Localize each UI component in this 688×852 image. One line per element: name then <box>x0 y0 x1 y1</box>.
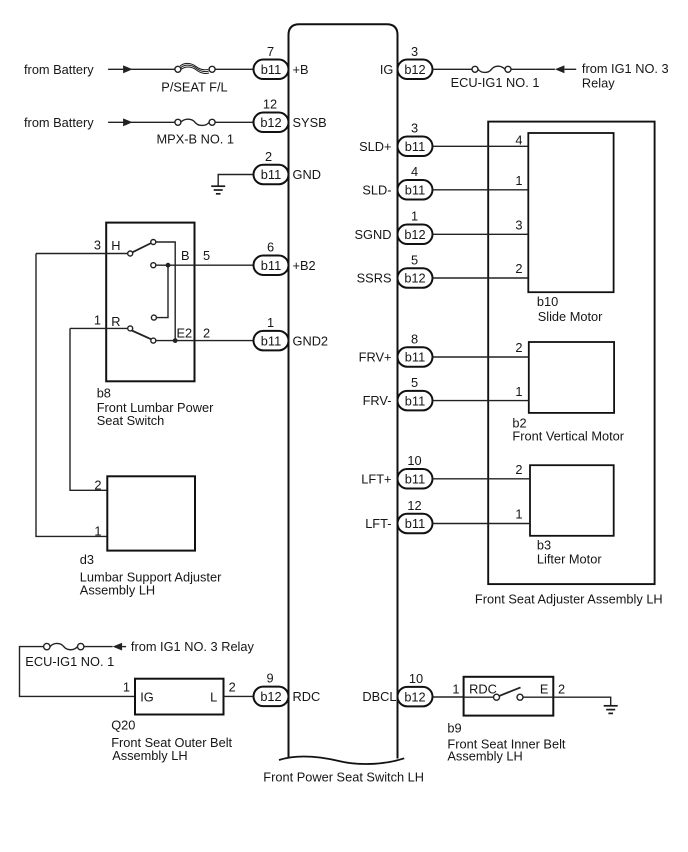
connector b12 pin SGND <box>398 225 433 245</box>
wire FRV- to vertical motor pin 1 <box>433 400 529 402</box>
svg-text:1: 1 <box>452 681 459 696</box>
motor b3 Lifter Motor box <box>530 465 614 536</box>
svg-text:from Battery: from Battery <box>24 62 94 77</box>
switch B contact <box>151 263 156 268</box>
svg-text:1: 1 <box>515 384 522 399</box>
svg-text:b3: b3 <box>537 537 551 552</box>
arrow left on IG1 feed <box>113 643 123 651</box>
switch R blade <box>132 331 152 340</box>
svg-text:5: 5 <box>203 248 210 263</box>
wire H throw to E2 net vertical <box>156 242 175 341</box>
switch H pole contact <box>128 251 133 256</box>
wire SLD+ to slide motor pin 4 <box>433 145 529 147</box>
svg-text:RDC: RDC <box>293 689 321 704</box>
label b9 Front Seat Inner Belt Assembly LH <box>447 720 566 763</box>
wire SSRS to slide motor pin 2 <box>433 277 529 279</box>
connector b12 pin SSRS <box>398 268 433 288</box>
svg-text:from IG1 NO. 3 Relay: from IG1 NO. 3 Relay <box>131 639 255 654</box>
label b8 Front Lumbar Power Seat Switch <box>97 385 214 428</box>
wire stub after arrow <box>564 68 576 70</box>
connector b11 pin SLD- <box>398 180 433 200</box>
wire Q20 to connector b12 RDC <box>224 695 254 697</box>
svg-text:b12: b12 <box>404 62 425 77</box>
connector b11 pin FRV+ <box>398 347 433 367</box>
connector b12 pin IG <box>398 60 433 80</box>
connector b11 pin GND2 <box>254 331 289 351</box>
svg-text:b11: b11 <box>405 516 425 531</box>
wire FRV+ to vertical motor pin 2 <box>433 356 529 358</box>
wire b9 pin1 to pole <box>464 696 494 698</box>
assembly box Front Seat Adjuster Assembly LH <box>488 122 654 584</box>
svg-text:5: 5 <box>411 252 418 267</box>
svg-text:+B2: +B2 <box>293 258 316 273</box>
svg-text:b12: b12 <box>260 115 281 130</box>
svg-text:2: 2 <box>515 340 522 355</box>
wire from Battery to fuse MPX-B <box>108 121 175 123</box>
wire LFT+ to lifter motor pin 2 <box>433 478 531 480</box>
svg-text:ECU-IG1 NO. 1: ECU-IG1 NO. 1 <box>451 75 540 90</box>
wire fuse to arrow <box>511 68 555 70</box>
svg-text:d3: d3 <box>80 552 94 567</box>
svg-text:FRV+: FRV+ <box>359 350 392 365</box>
svg-text:b12: b12 <box>404 271 425 286</box>
switch R throw contact <box>151 338 156 343</box>
connector b11 pin GND <box>254 165 289 185</box>
wire R row from external to switch <box>70 327 128 329</box>
switch b9 pole contact <box>494 694 500 700</box>
switch b9 throw contact <box>517 694 523 700</box>
svg-text:FRV-: FRV- <box>363 393 392 408</box>
wire connector IG to fuse ECU-IG1 <box>433 68 473 70</box>
wire fusible link to connector b11 +B <box>215 68 254 70</box>
svg-text:Seat Switch: Seat Switch <box>97 413 165 428</box>
wire b8 pin1 to d3 pin2 <box>70 328 107 490</box>
wire SLD- to slide motor pin 1 <box>433 189 529 191</box>
svg-text:SLD+: SLD+ <box>359 139 391 154</box>
label d3 Lumbar Support Adjuster Assembly LH <box>80 552 222 598</box>
svg-text:SGND: SGND <box>355 227 392 242</box>
connector b12 pin RDC <box>254 687 289 707</box>
svg-text:RDC: RDC <box>469 682 497 697</box>
svg-text:10: 10 <box>407 453 421 468</box>
svg-text:Q20: Q20 <box>111 718 135 733</box>
label b2 Front Vertical Motor <box>512 415 624 443</box>
svg-text:LFT-: LFT- <box>365 516 391 531</box>
wire E2 to b11 GND2 <box>156 340 254 342</box>
label b3 Lifter Motor <box>537 537 602 566</box>
svg-text:2: 2 <box>203 325 210 340</box>
svg-text:Lifter Motor: Lifter Motor <box>537 552 602 567</box>
connector b11 pin LFT- <box>398 514 433 534</box>
svg-text:LFT+: LFT+ <box>361 471 391 486</box>
svg-text:H: H <box>111 238 120 253</box>
wire throw to E terminal <box>523 696 553 698</box>
svg-text:2: 2 <box>558 681 565 696</box>
svg-text:Front Seat Adjuster Assembly L: Front Seat Adjuster Assembly LH <box>475 591 663 606</box>
svg-text:5: 5 <box>411 375 418 390</box>
svg-text:SSRS: SSRS <box>357 271 392 286</box>
ground symbol GND <box>211 186 225 194</box>
svg-text:Relay: Relay <box>582 76 615 91</box>
svg-text:12: 12 <box>263 97 277 112</box>
svg-text:GND: GND <box>293 167 321 182</box>
svg-text:Assembly LH: Assembly LH <box>447 749 522 764</box>
svg-text:b11: b11 <box>405 393 425 408</box>
svg-text:b12: b12 <box>260 689 281 704</box>
svg-text:6: 6 <box>267 240 274 255</box>
ECU main box Front Power Seat Switch LH <box>279 24 404 764</box>
svg-text:10: 10 <box>409 671 423 686</box>
svg-text:b11: b11 <box>405 183 425 198</box>
svg-text:B: B <box>181 248 190 263</box>
wire fuse to connector b12 SYSB <box>215 121 254 123</box>
svg-text:from IG1 NO. 3: from IG1 NO. 3 <box>582 61 669 76</box>
svg-text:b12: b12 <box>404 227 425 242</box>
svg-text:Front Vertical Motor: Front Vertical Motor <box>512 429 624 444</box>
svg-text:P/SEAT F/L: P/SEAT F/L <box>161 79 227 94</box>
switch b9 blade <box>499 687 520 696</box>
svg-text:from Battery: from Battery <box>24 115 94 130</box>
svg-text:2: 2 <box>229 680 236 695</box>
svg-text:b9: b9 <box>447 720 461 735</box>
svg-text:IG: IG <box>380 62 394 77</box>
wire connector GND to ground <box>218 175 253 187</box>
connector b11 pin +B <box>254 60 289 80</box>
svg-text:GND2: GND2 <box>293 334 329 349</box>
svg-text:Assembly LH: Assembly LH <box>80 583 155 598</box>
svg-text:R: R <box>111 314 120 329</box>
svg-text:SYSB: SYSB <box>293 115 327 130</box>
svg-text:1: 1 <box>515 507 522 522</box>
switch lower B contact <box>151 315 156 320</box>
fuse ECU-IG1 NO. 1 (bottom) <box>44 643 84 649</box>
svg-text:ECU-IG1 NO. 1: ECU-IG1 NO. 1 <box>25 654 114 669</box>
connector b12 pin DBCL <box>398 687 433 707</box>
svg-text:1: 1 <box>267 315 274 330</box>
svg-text:b11: b11 <box>405 472 425 487</box>
svg-text:Slide Motor: Slide Motor <box>538 309 603 324</box>
junction E2 net <box>173 338 178 343</box>
svg-text:b10: b10 <box>537 294 558 309</box>
svg-text:b12: b12 <box>404 689 425 704</box>
svg-text:L: L <box>210 689 217 704</box>
svg-text:8: 8 <box>411 331 418 346</box>
svg-text:E: E <box>540 682 549 697</box>
svg-text:b11: b11 <box>261 258 281 273</box>
switch assembly b8 box <box>106 223 194 382</box>
wire fuse to Q20 pin 1 <box>20 647 136 697</box>
svg-text:4: 4 <box>515 133 522 148</box>
svg-text:b11: b11 <box>261 333 281 348</box>
svg-text:1: 1 <box>411 209 418 224</box>
wire b8 pin3 to d3 pin1 <box>36 254 107 537</box>
connector b11 pin FRV- <box>398 391 433 411</box>
svg-text:IG: IG <box>140 689 154 704</box>
wire DBCL to b9 pin 1 <box>433 696 464 698</box>
svg-text:SLD-: SLD- <box>362 182 391 197</box>
arrow right on battery feed <box>123 65 133 73</box>
connector b11 pin +B2 <box>254 255 289 275</box>
wire from Battery to fusible link <box>108 68 175 70</box>
switch assembly b9 box <box>464 677 554 716</box>
motor assembly d3 box <box>107 476 195 550</box>
wire SGND to slide motor pin 3 <box>433 233 529 235</box>
fusible link P/SEAT F/L <box>175 63 215 73</box>
motor b10 Slide Motor box <box>528 133 613 292</box>
svg-text:b11: b11 <box>405 350 425 365</box>
ground symbol b9 <box>604 706 618 714</box>
svg-text:3: 3 <box>411 121 418 136</box>
wire B contact to b11 +B2 <box>156 264 254 266</box>
switch R pole contact <box>128 326 133 331</box>
label Q20 Front Seat Outer Belt Assembly LH <box>111 718 232 764</box>
wire B net to lower contact <box>156 265 168 317</box>
svg-text:b11: b11 <box>261 62 281 77</box>
svg-text:2: 2 <box>515 462 522 477</box>
arrow left on IG1 feed (top) <box>555 65 565 73</box>
svg-text:Front Power Seat Switch LH: Front Power Seat Switch LH <box>263 770 424 785</box>
svg-text:DBCL: DBCL <box>362 689 396 704</box>
connector b11 pin LFT+ <box>398 469 433 489</box>
wire LFT- to lifter motor pin 1 <box>433 523 531 525</box>
svg-text:1: 1 <box>515 173 522 188</box>
fuse ECU-IG1 NO. 1 (top) <box>472 66 511 72</box>
svg-text:2: 2 <box>94 477 101 492</box>
wire from IG1 relay to fuse (bottom) <box>84 646 113 648</box>
svg-text:MPX-B NO. 1: MPX-B NO. 1 <box>157 132 235 147</box>
svg-text:9: 9 <box>266 671 273 686</box>
svg-text:2: 2 <box>265 149 272 164</box>
svg-text:3: 3 <box>515 218 522 233</box>
svg-text:3: 3 <box>94 238 101 253</box>
svg-text:b11: b11 <box>261 167 281 182</box>
switch H blade <box>132 243 151 252</box>
junction B net <box>166 263 171 268</box>
arrow right on SYSB feed <box>123 118 133 126</box>
node from IG1 NO. 3 Relay (top) <box>582 61 669 90</box>
connector b11 pin SLD+ <box>398 137 433 157</box>
svg-text:1: 1 <box>123 680 130 695</box>
svg-text:7: 7 <box>267 44 274 59</box>
svg-text:4: 4 <box>411 164 418 179</box>
fuse MPX-B NO. 1 <box>175 119 215 125</box>
svg-text:E2: E2 <box>177 325 193 340</box>
svg-text:+B: +B <box>293 62 309 77</box>
svg-text:1: 1 <box>94 313 101 328</box>
motor b2 Front Vertical Motor box <box>529 342 614 413</box>
svg-text:3: 3 <box>411 44 418 59</box>
svg-text:b11: b11 <box>405 139 425 154</box>
svg-text:Assembly LH: Assembly LH <box>112 748 187 763</box>
wire stub after arrow <box>122 646 126 648</box>
switch assembly Q20 box <box>135 679 224 715</box>
svg-text:12: 12 <box>407 498 421 513</box>
svg-text:1: 1 <box>94 523 101 538</box>
svg-text:2: 2 <box>515 261 522 276</box>
wire b9 to ground <box>553 697 610 706</box>
svg-text:b8: b8 <box>97 385 111 400</box>
switch H throw contact <box>151 240 156 245</box>
wire H row from external to switch <box>36 253 128 255</box>
connector b12 pin SYSB <box>254 113 289 133</box>
label b10 Slide Motor <box>537 294 603 324</box>
